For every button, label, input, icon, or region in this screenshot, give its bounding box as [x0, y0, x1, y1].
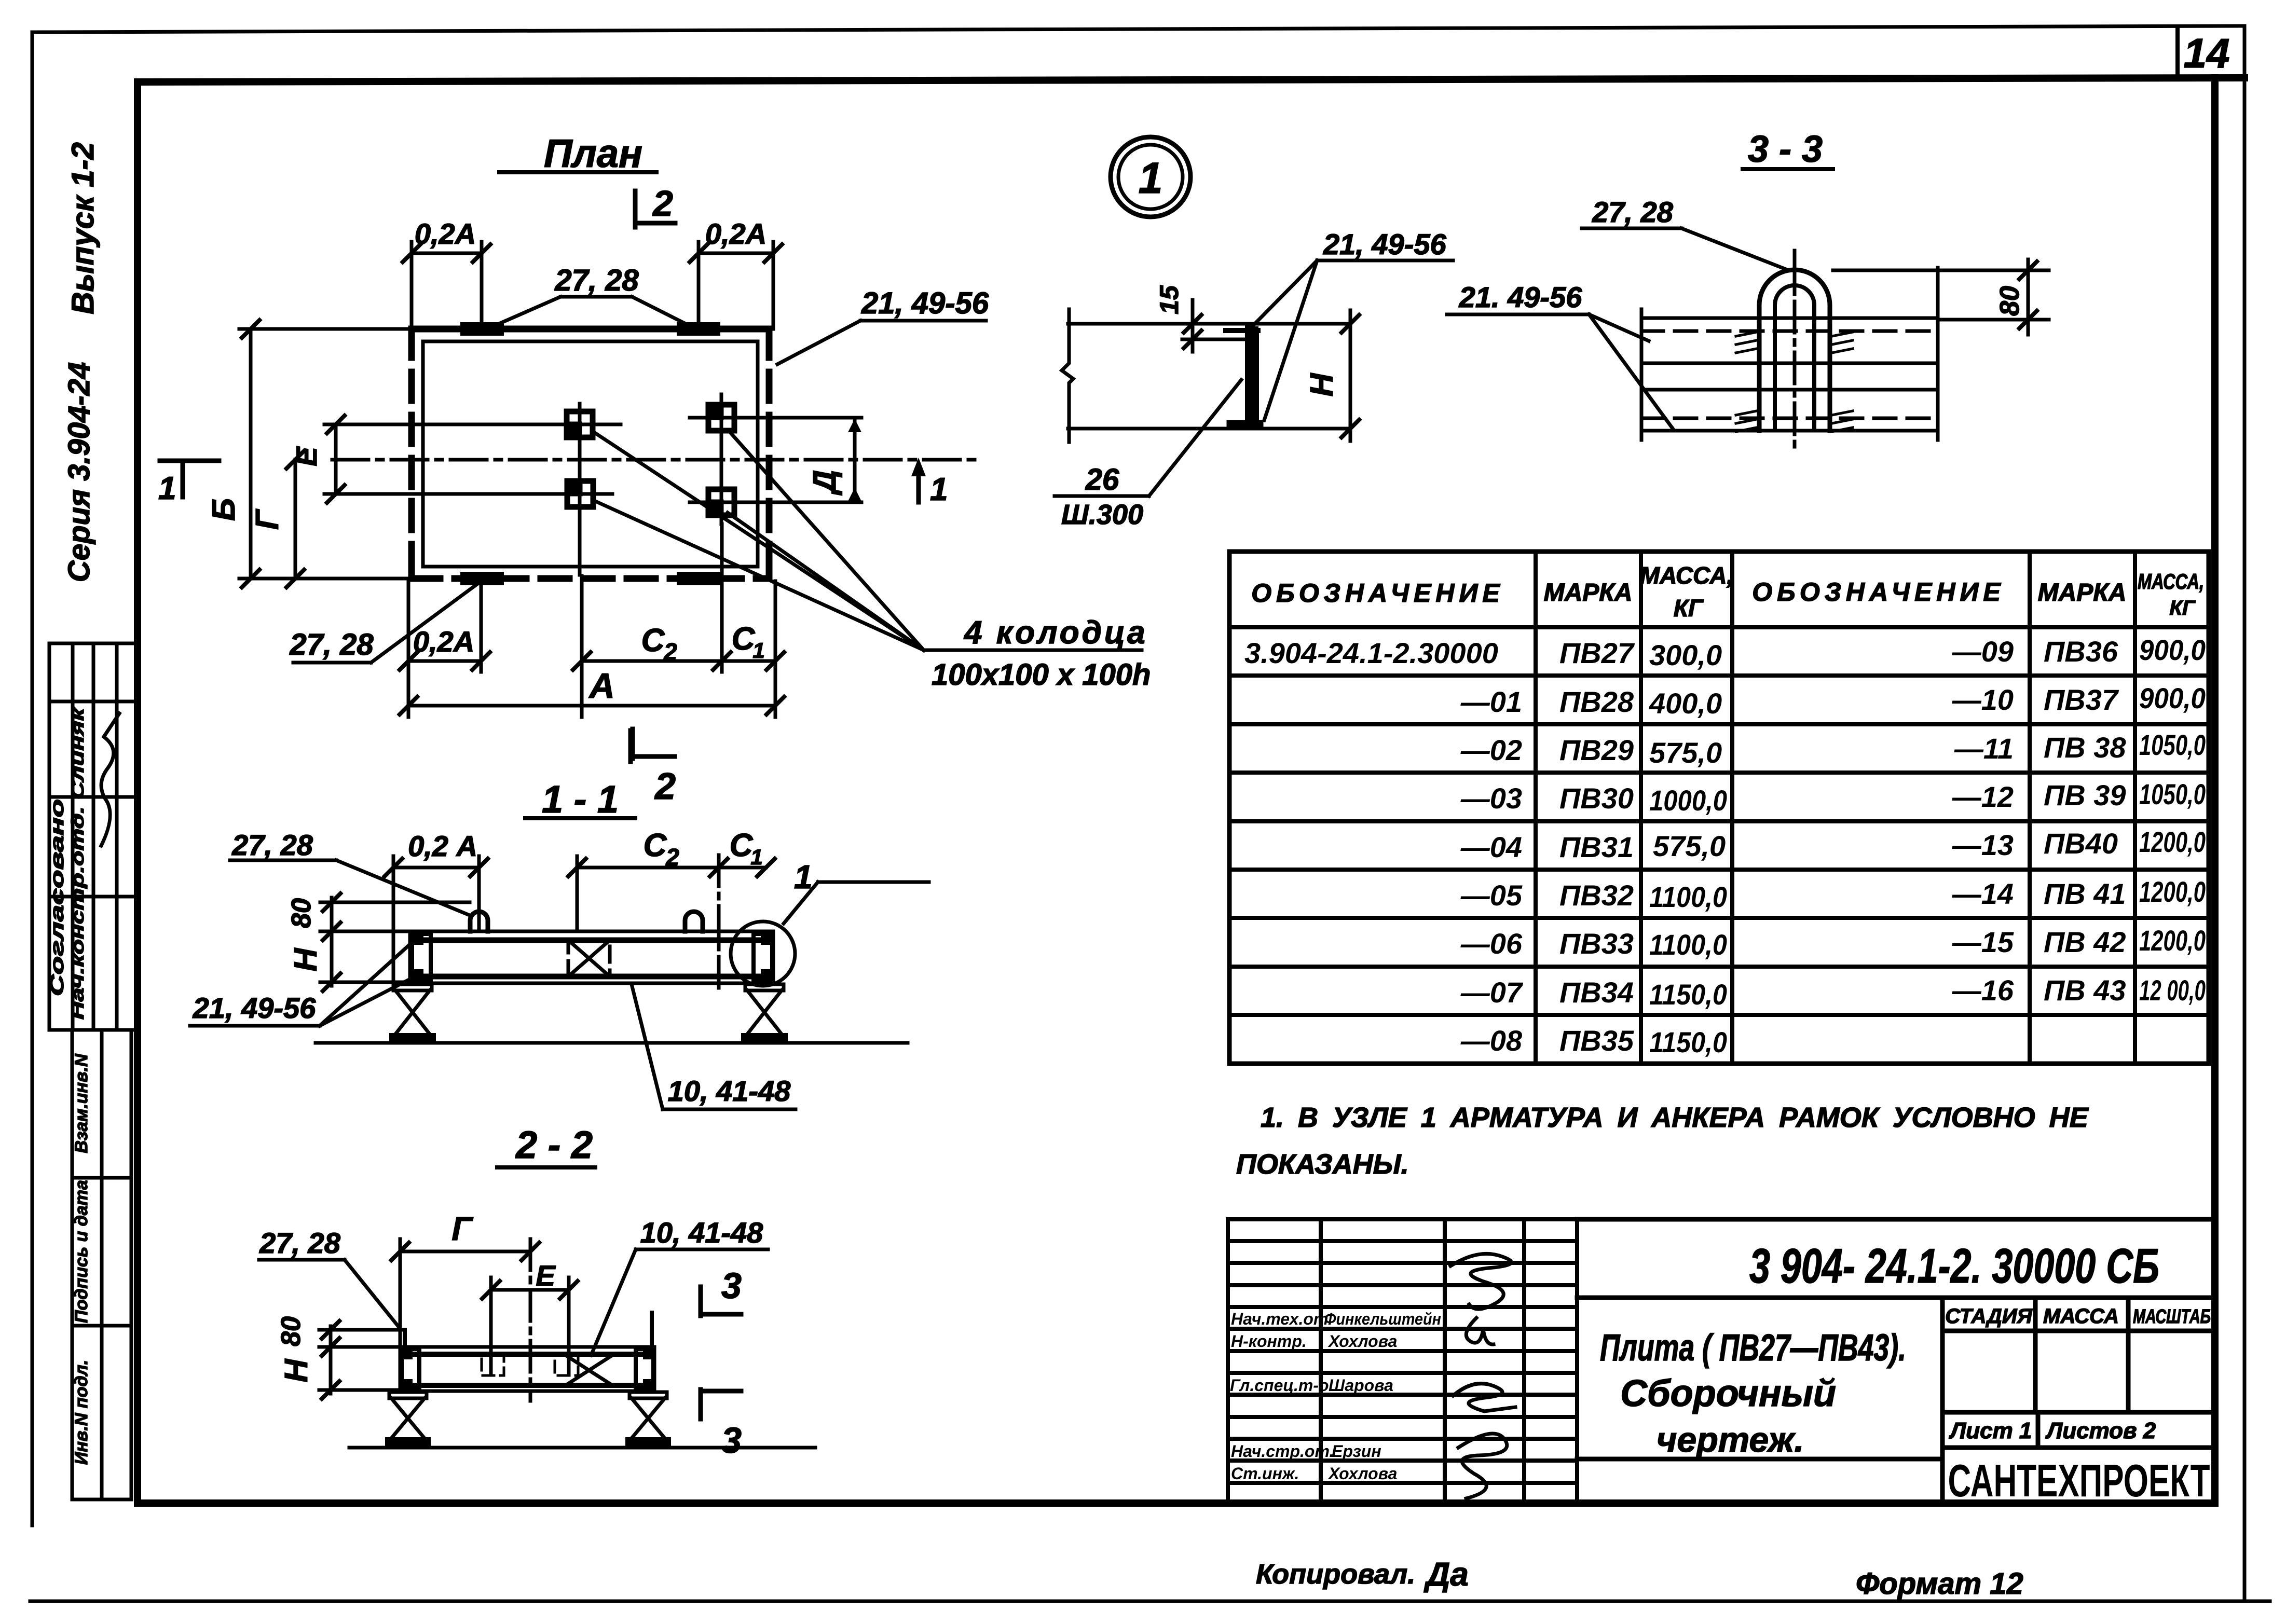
trestle right (1-1)	[745, 984, 784, 1034]
svg-text:—04: —04	[1460, 831, 1522, 863]
slab strip (3-3)	[1641, 318, 1938, 431]
svg-text:ПВ40: ПВ40	[2044, 827, 2118, 860]
sidebar signature	[101, 713, 119, 846]
trestle left (1-1)	[393, 984, 432, 1034]
svg-text:Б: Б	[206, 498, 242, 521]
svg-text:ПВ 38: ПВ 38	[2044, 731, 2126, 764]
svg-text:—10: —10	[1952, 683, 2014, 716]
svg-text:1100,0: 1100,0	[1649, 928, 1727, 961]
section mark 2 top	[635, 191, 675, 227]
svg-text:Копировал.: Копировал.	[1256, 1559, 1415, 1590]
svg-text:Ш.300: Ш.300	[1061, 499, 1143, 530]
svg-text:Серия 3.904-24: Серия 3.904-24	[62, 362, 96, 582]
svg-text:1200,0: 1200,0	[2139, 825, 2206, 858]
dimension 80 (3-3)	[1833, 259, 2049, 335]
svg-text:900,0: 900,0	[2139, 682, 2206, 714]
dimension Г	[294, 460, 297, 579]
svg-text:1150,0: 1150,0	[1649, 1026, 1727, 1058]
svg-text:26: 26	[1085, 463, 1119, 497]
svg-text:МАСШТАБ: МАСШТАБ	[2133, 1306, 2211, 1328]
svg-text:Финкельштейн: Финкельштейн	[1324, 1310, 1441, 1328]
lifting loop right (1-1)	[685, 912, 703, 931]
svg-text:1: 1	[752, 638, 764, 663]
ground line (1-1)	[316, 1041, 908, 1045]
dimension Г (2-2)	[400, 1250, 530, 1254]
svg-text:2 - 2: 2 - 2	[515, 1123, 593, 1166]
svg-text:21, 49-56: 21, 49-56	[1323, 228, 1446, 260]
svg-text:Гл.спец.т-о: Гл.спец.т-о	[1230, 1376, 1329, 1395]
slab end channel left (1-1)	[412, 934, 431, 981]
svg-text:МАРКА: МАРКА	[1544, 579, 1633, 607]
svg-text:Н: Н	[1304, 373, 1340, 396]
signature scribbles	[1450, 1254, 1511, 1309]
svg-text:Шарова: Шарова	[1329, 1376, 1393, 1395]
svg-text:10, 41-48: 10, 41-48	[668, 1075, 791, 1107]
svg-text:МАРКА: МАРКА	[2038, 579, 2127, 607]
strip end ticks (3-3)	[1640, 309, 1644, 440]
svg-text:Да: Да	[1423, 1556, 1469, 1593]
svg-text:2: 2	[663, 638, 677, 665]
svg-text:С: С	[644, 828, 667, 863]
svg-text:1 - 1: 1 - 1	[542, 778, 619, 821]
svg-text:ПВ30: ПВ30	[1559, 782, 1634, 815]
well square top-right	[708, 405, 734, 431]
plan centerline	[332, 458, 981, 462]
svg-text:КГ: КГ	[1674, 595, 1704, 622]
dimension C2 (1-1)	[577, 866, 719, 870]
svg-text:ПВ 42: ПВ 42	[2044, 926, 2126, 958]
sheet number box 14	[2175, 29, 2180, 79]
leaders to 4 колодца label	[593, 431, 1142, 650]
detail circle 1	[1111, 137, 1190, 217]
svg-text:Инв.N подл.: Инв.N подл.	[72, 1360, 91, 1465]
slab body (1-1)	[410, 931, 773, 983]
svg-text:Г: Г	[451, 1210, 473, 1247]
lifting loop (3-3)	[1759, 270, 1830, 431]
svg-text:0,2 А: 0,2 А	[408, 830, 477, 862]
title block grid right	[1577, 1219, 2215, 1504]
svg-text:—02: —02	[1460, 734, 1522, 766]
svg-text:—08: —08	[1460, 1024, 1523, 1057]
svg-text:Плита ( ПВ27—ПВ43).: Плита ( ПВ27—ПВ43).	[1600, 1327, 1906, 1369]
svg-text:900,0: 900,0	[2139, 634, 2206, 666]
svg-text:ПВ 39: ПВ 39	[2044, 779, 2126, 811]
svg-text:—06: —06	[1460, 927, 1523, 960]
svg-text:80: 80	[1995, 286, 2025, 316]
svg-text:Нач.тех.от.: Нач.тех.от.	[1231, 1310, 1333, 1328]
detail embedded channel	[1245, 329, 1259, 424]
svg-text:Взам.инв.N: Взам.инв.N	[72, 1053, 91, 1153]
svg-text:ОБОЗНАЧЕНИЕ: ОБОЗНАЧЕНИЕ	[1752, 577, 2005, 607]
dimension Б	[239, 329, 412, 579]
dimension 80 / H (1-1)	[320, 898, 470, 986]
svg-text:27, 28: 27, 28	[1592, 196, 1674, 228]
svg-text:80: 80	[286, 898, 317, 928]
svg-text:Н: Н	[288, 947, 324, 971]
loop centerline (3-3)	[1793, 251, 1797, 448]
svg-text:3 - 3: 3 - 3	[1748, 129, 1823, 170]
plan slab outer edge	[412, 329, 769, 579]
svg-text:МАССА: МАССА	[2043, 1305, 2119, 1328]
slab body (2-2)	[400, 1347, 654, 1391]
dimension H (detail)	[1349, 310, 1352, 441]
svg-text:Выпуск 1-2: Выпуск 1-2	[65, 142, 100, 314]
dimension Е	[324, 424, 370, 494]
dimension 0,2A (1-1)	[393, 866, 479, 870]
svg-text:27, 28: 27, 28	[289, 628, 374, 662]
svg-text:2: 2	[654, 766, 676, 807]
svg-text:0,2А: 0,2А	[705, 217, 766, 250]
table data rows right	[1952, 634, 2206, 1007]
svg-text:1: 1	[158, 471, 176, 506]
section mark 1 right	[916, 470, 921, 502]
signature table labels	[1230, 1310, 1441, 1483]
svg-text:ПВ36: ПВ36	[2044, 635, 2118, 668]
sidebar stamp group upper	[49, 643, 138, 1030]
svg-text:Нач.стр.от.: Нач.стр.от.	[1231, 1442, 1334, 1461]
well square top-left	[567, 411, 593, 437]
svg-text:Е: Е	[536, 1259, 556, 1292]
svg-text:С: С	[730, 828, 754, 863]
svg-text:Листов 2: Листов 2	[2045, 1418, 2156, 1443]
slab end channel right (2-2)	[636, 1349, 653, 1388]
svg-text:3.904-24.1-2.30000: 3.904-24.1-2.30000	[1244, 637, 1498, 669]
svg-text:1000,0: 1000,0	[1649, 784, 1727, 817]
dimension 80 / H (2-2)	[319, 1326, 404, 1394]
sidebar stamp group lower	[72, 1030, 131, 1499]
svg-text:2: 2	[665, 844, 679, 871]
svg-text:КГ: КГ	[2169, 597, 2196, 620]
section mark 3 bottom (2-2)	[701, 1389, 741, 1419]
svg-text:3 904- 24.1-2. 30000 СБ: 3 904- 24.1-2. 30000 СБ	[1749, 1238, 2159, 1293]
svg-text:САНТЕХПРОЕКТ: САНТЕХПРОЕКТ	[1948, 1455, 2210, 1506]
svg-text:1100,0: 1100,0	[1649, 880, 1727, 913]
svg-text:МАССА,: МАССА,	[2138, 569, 2204, 594]
detail slab top line	[1068, 322, 1350, 326]
svg-text:ПВ 43: ПВ 43	[2044, 974, 2126, 1007]
svg-text:ПВ35: ПВ35	[1559, 1024, 1634, 1057]
svg-text:1: 1	[930, 472, 948, 507]
svg-text:14: 14	[2184, 30, 2230, 76]
well squares dashed (2-2)	[482, 1355, 504, 1375]
svg-text:1. В УЗЛЕ 1 АРМАТУРА И: 1. В УЗЛЕ 1 АРМАТУРА И АНКЕРА РАМОК УСЛО…	[1261, 1102, 2089, 1133]
svg-text:—01: —01	[1460, 685, 1522, 718]
plan slab inner edge	[423, 341, 758, 567]
loop stubs seen end-on (2-2)	[403, 1330, 407, 1347]
svg-text:ПВ33: ПВ33	[1559, 927, 1634, 960]
bottom dimension extension lines	[408, 524, 775, 717]
svg-text:Ст.инж.: Ст.инж.	[1231, 1464, 1299, 1483]
svg-text:ПВ 41: ПВ 41	[2044, 877, 2126, 910]
svg-text:27, 28: 27, 28	[554, 264, 639, 297]
svg-text:—13: —13	[1952, 829, 2014, 861]
svg-text:21. 49-56: 21. 49-56	[1459, 281, 1582, 313]
svg-text:1150,0: 1150,0	[1649, 978, 1727, 1011]
svg-text:—07: —07	[1460, 976, 1524, 1009]
svg-text:1050,0: 1050,0	[2139, 728, 2206, 761]
svg-text:Лист 1: Лист 1	[1949, 1418, 2032, 1443]
svg-text:575,0: 575,0	[1649, 736, 1722, 769]
svg-text:—14: —14	[1952, 877, 2014, 910]
svg-text:чертеж.: чертеж.	[1657, 1420, 1804, 1460]
ground line (2-2)	[349, 1446, 815, 1450]
svg-text:—15: —15	[1952, 926, 2014, 958]
detail left break line	[1062, 309, 1073, 442]
dimension 0,2A bottom	[408, 659, 481, 663]
dimension C1 (1-1)	[719, 866, 766, 870]
dimension 0,2A top-left	[412, 242, 482, 329]
svg-text:СТАДИЯ: СТАДИЯ	[1945, 1305, 2032, 1328]
svg-text:А: А	[588, 666, 614, 706]
svg-text:—05: —05	[1460, 879, 1523, 912]
svg-text:27, 28: 27, 28	[259, 1227, 341, 1259]
svg-text:27, 28: 27, 28	[231, 829, 313, 861]
svg-text:10, 41-48: 10, 41-48	[640, 1216, 763, 1249]
svg-text:0,2А: 0,2А	[415, 217, 476, 250]
svg-text:100х100 х 100h: 100х100 х 100h	[932, 658, 1151, 692]
svg-text:Н-контр.: Н-контр.	[1231, 1332, 1307, 1351]
svg-text:Подпись и дата: Подпись и дата	[72, 1180, 91, 1323]
svg-text:21, 49-56: 21, 49-56	[861, 286, 989, 320]
svg-text:300,0: 300,0	[1649, 639, 1722, 671]
svg-text:400,0: 400,0	[1649, 687, 1722, 720]
anchor marks 27,28 on bottom edge	[467, 572, 497, 585]
svg-text:—11: —11	[1954, 732, 2014, 765]
svg-text:21, 49-56: 21, 49-56	[193, 992, 316, 1024]
well square bottom-left	[567, 481, 593, 507]
svg-text:ПВ29: ПВ29	[1559, 734, 1634, 766]
svg-text:Е: Е	[290, 446, 323, 466]
svg-text:—12: —12	[1952, 780, 2014, 813]
svg-text:ПОКАЗАНЫ.: ПОКАЗАНЫ.	[1236, 1149, 1409, 1180]
svg-text:4 колодца: 4 колодца	[963, 615, 1148, 651]
dimension A bottom	[408, 704, 775, 708]
svg-text:ОБОЗНАЧЕНИЕ: ОБОЗНАЧЕНИЕ	[1251, 579, 1504, 608]
svg-text:Хохлова: Хохлова	[1327, 1332, 1397, 1351]
well square bottom-right	[708, 489, 734, 515]
lifting loop left (1-1)	[470, 912, 488, 931]
svg-text:—09: —09	[1952, 635, 2014, 668]
trestle right (2-2)	[629, 1392, 667, 1438]
svg-text:575,0: 575,0	[1653, 830, 1726, 862]
svg-text:С: С	[732, 621, 756, 657]
svg-text:1050,0: 1050,0	[2139, 778, 2206, 810]
svg-text:Н: Н	[279, 1358, 314, 1382]
table grid	[1229, 552, 2209, 1064]
svg-text:Согласовано: Согласовано	[46, 799, 67, 996]
dimension C2 C1 bottom	[582, 659, 775, 663]
svg-text:—16: —16	[1952, 974, 2014, 1007]
signature table grid	[1228, 1219, 1577, 1504]
svg-text:ПВ34: ПВ34	[1559, 976, 1634, 1009]
node 1 circle (1-1)	[731, 921, 795, 986]
middle frame X (1-1)	[568, 940, 610, 976]
svg-text:План: План	[544, 132, 642, 176]
svg-text:—03: —03	[1460, 782, 1522, 815]
svg-text:С: С	[641, 623, 665, 658]
dimension Е (2-2)	[491, 1288, 569, 1292]
svg-text:ПВ32: ПВ32	[1559, 879, 1634, 912]
svg-text:1: 1	[1139, 154, 1163, 202]
svg-text:Г: Г	[250, 508, 285, 530]
svg-text:1200,0: 1200,0	[2139, 875, 2206, 908]
svg-text:ПВ27: ПВ27	[1559, 637, 1635, 669]
anchor marks 27,28 on top edge	[467, 322, 497, 336]
dimension 15 (detail)	[1191, 300, 1195, 352]
section mark 2 above 1-1	[628, 731, 633, 762]
svg-text:Хохлова: Хохлова	[1327, 1464, 1397, 1483]
svg-text:Сборочный: Сборочный	[1620, 1373, 1836, 1414]
weld hatch marks (3-3)	[1736, 332, 1853, 432]
svg-text:3: 3	[721, 1265, 742, 1306]
svg-text:2: 2	[652, 183, 673, 224]
dimension 0,2A top-right	[699, 242, 773, 329]
svg-text:1: 1	[750, 845, 762, 869]
svg-text:МАССА,: МАССА,	[1640, 562, 1734, 589]
svg-text:ПВ31: ПВ31	[1559, 831, 1634, 863]
svg-text:Нач.констр.отд. Слиняк: Нач.констр.отд. Слиняк	[68, 707, 87, 1020]
slab end channel right (1-1)	[754, 934, 772, 981]
section mark 3 top (2-2)	[701, 1287, 741, 1316]
trestle left (2-2)	[389, 1392, 427, 1438]
svg-text:Формат 12: Формат 12	[1856, 1567, 2023, 1601]
svg-text:80: 80	[276, 1316, 306, 1346]
table data rows left	[1244, 637, 1727, 1058]
svg-text:0,2А: 0,2А	[413, 625, 474, 658]
detail slab bottom line	[1068, 427, 1350, 431]
dimension Д right	[853, 418, 857, 502]
svg-text:15: 15	[1155, 285, 1184, 314]
well axis lines	[363, 394, 861, 575]
section mark 2 bottom	[633, 729, 675, 759]
slab end channel left (2-2)	[402, 1349, 419, 1388]
svg-text:ПВ28: ПВ28	[1559, 685, 1634, 718]
svg-text:Ерзин: Ерзин	[1332, 1442, 1381, 1461]
svg-text:12 00,0: 12 00,0	[2139, 974, 2206, 1007]
middle X (2-2)	[566, 1355, 612, 1385]
svg-text:1200,0: 1200,0	[2139, 924, 2206, 957]
svg-text:ПВ37: ПВ37	[2044, 683, 2119, 716]
svg-text:3: 3	[721, 1420, 742, 1461]
svg-text:Д: Д	[807, 470, 843, 496]
section mark 1 left	[160, 461, 219, 497]
